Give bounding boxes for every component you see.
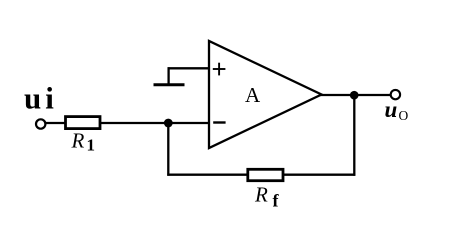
- wire: input terminal to R1: [45, 122, 66, 124]
- label R1: [71, 129, 96, 155]
- input terminal (open circle): [36, 119, 45, 128]
- label Rf: [254, 183, 280, 211]
- svg-text:R: R: [71, 129, 85, 153]
- wire: output branch vertical up to output node: [353, 95, 355, 176]
- wire: op-amp output to output node: [320, 94, 391, 96]
- ground: [154, 83, 185, 86]
- svg-text:ui: ui: [24, 81, 58, 116]
- label + (non-inverting input): [213, 63, 226, 76]
- svg-text:u: u: [385, 97, 398, 122]
- svg-text:O: O: [399, 108, 409, 123]
- wire: bottom rail right segment (Rf to output branch): [283, 174, 355, 176]
- node: output junction: [350, 91, 359, 100]
- svg-text:1: 1: [87, 136, 96, 155]
- svg-text:f: f: [273, 191, 280, 211]
- resistor R1: [66, 117, 101, 129]
- svg-text:A: A: [245, 83, 261, 107]
- label - (inverting input): [213, 121, 225, 123]
- output terminal (open circle): [391, 90, 400, 99]
- label uO (output voltage): [385, 97, 409, 123]
- node: junction at inverting input: [164, 119, 173, 128]
- op-amp U1 (triangle): [209, 41, 322, 148]
- resistor Rf: [248, 169, 283, 180]
- wire: junction down to feedback bottom rail: [167, 123, 169, 176]
- svg-text:R: R: [254, 183, 268, 207]
- wire: non-inverting input to ground: [168, 67, 208, 84]
- label A (gain): [245, 83, 261, 107]
- label ui (input voltage): [24, 81, 58, 116]
- wire: bottom rail left segment (junction to Rf): [167, 174, 248, 176]
- wire: R1 to inverting input of op-amp: [101, 122, 208, 124]
